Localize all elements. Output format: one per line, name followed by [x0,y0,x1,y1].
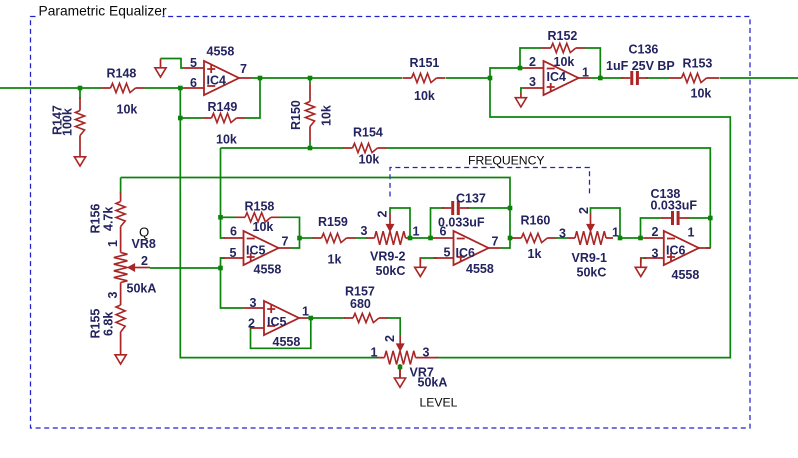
op-amp IC5 unit A [224,231,291,265]
svg-text:6: 6 [440,225,447,239]
wire IC6A pin5 to gnd [420,258,437,263]
wire C138 right [688,217,711,219]
wire R160 to VR9-1 [556,237,568,239]
svg-text:1k: 1k [328,253,342,267]
potentiometer VR7 50kA [377,336,438,378]
resistor R157 680 [344,313,388,322]
op-amp IC6 unit A [434,231,501,265]
wire pin5 jog [221,258,245,308]
wire R148 to IC4 pin6 [145,87,185,89]
svg-text:IC5: IC5 [246,244,266,258]
junction R151/feedback [488,76,493,81]
svg-text:7: 7 [492,235,499,249]
wire R150 bottom stub [309,142,311,148]
svg-text:5: 5 [444,246,451,260]
wire R154 row right [387,148,711,248]
ground at IC6A pin5 [415,258,426,277]
resistor R155 6.8k [116,283,125,346]
svg-text:3: 3 [559,227,566,241]
wire x220 vertical lower [221,257,226,259]
junction C138 right [708,216,713,221]
svg-text:2: 2 [652,225,659,239]
svg-text:5: 5 [190,56,197,70]
svg-text:7: 7 [282,235,289,249]
op-amp IC6 unit B [644,231,711,265]
svg-text:R156: R156 [89,204,103,234]
wire IC4 output row [251,77,402,79]
svg-text:10k: 10k [117,103,138,117]
wire VR9-2 wiper loop [390,208,410,238]
svg-text:FREQUENCY: FREQUENCY [468,154,545,168]
wiper arrow VR7 [396,344,404,352]
frequency gang dashed bracket [390,168,590,197]
svg-text:R152: R152 [548,29,578,43]
svg-text:50kC: 50kC [376,264,406,278]
junction C137 left [428,236,433,241]
wire R156 top stub [120,178,122,195]
svg-text:1k: 1k [528,247,542,261]
resistor R152 10k [542,43,585,52]
wire C137 right [467,207,510,209]
svg-text:1: 1 [371,346,378,360]
junction R150 top [308,76,313,81]
svg-text:10k: 10k [216,133,237,147]
wire R152 loop left [520,48,542,68]
potentiometer VR9-2 50kC [367,214,411,245]
svg-text:R155: R155 [89,309,103,339]
svg-text:10k: 10k [253,220,274,234]
ground below R155 [115,345,126,364]
svg-text:1: 1 [688,226,695,240]
svg-text:4.7k: 4.7k [102,207,116,231]
svg-text:10k: 10k [320,105,334,126]
ground at IC4B pin3 [515,93,526,108]
op-amp IC4 unit A [184,61,251,95]
svg-text:R160: R160 [521,214,551,228]
junction R158 left [218,215,223,220]
junction VR9-1 pin1 [618,236,623,241]
junction VR8 wiper [218,266,223,271]
svg-text:100k: 100k [61,108,75,136]
svg-text:2: 2 [577,207,591,214]
title Parametric Equalizer [37,4,167,19]
svg-text:2: 2 [529,55,536,69]
junction IC4A out [258,76,263,81]
svg-text:VR9-2: VR9-2 [370,250,405,264]
junction VR7 ground [398,365,403,370]
svg-text:R154: R154 [353,126,383,140]
wire IC5B out to R157 [308,317,345,319]
svg-text:1: 1 [106,240,120,247]
resistor R154 10k [344,143,387,152]
wire R157 to VR7 wiper [388,318,401,336]
svg-text:1: 1 [582,66,589,80]
wire R158 left stub [221,216,237,218]
capacitor C138 0.033uF [662,211,689,225]
ground at IC6B pin3 [635,258,646,277]
svg-text:3: 3 [250,296,257,310]
svg-text:4558: 4558 [254,263,282,277]
svg-text:6.8k: 6.8k [102,312,116,336]
wire x220 vertical upper [221,148,226,238]
resistor R148 10k [102,83,145,92]
svg-text:3: 3 [652,247,659,261]
wire IC4B out to C136 [591,77,624,79]
junction R159 node [297,236,302,241]
svg-text:4558: 4558 [207,45,235,59]
junction R148/rail [178,86,183,91]
junction IC5B out [309,316,314,321]
op-amp IC5 unit B [244,301,308,335]
svg-text:2: 2 [248,317,255,331]
wire R147 top stub [79,88,81,99]
wire R149 left [180,117,202,119]
resistor R150 10k [305,84,314,142]
capacitor C137 0.033uF [442,201,469,215]
wire VR9-2 pin1 to C137 node [410,237,434,239]
resistor R159 1k [313,233,356,242]
wire node rail x180 down [180,88,377,358]
potentiometer VR8 50kA [114,253,150,283]
svg-text:R150: R150 [289,100,303,130]
svg-text:4558: 4558 [672,268,700,282]
wire R152 loop right [585,48,601,78]
svg-text:IC4: IC4 [207,74,227,88]
svg-text:3: 3 [423,346,430,360]
junction VR9-2 pin1 [408,236,413,241]
wiper arrow VR9-2 [386,224,394,232]
wire IC6B out corner [706,247,710,249]
wire R150 top stub [309,78,311,84]
op-amp IC4 unit B [524,61,591,95]
svg-text:LEVEL: LEVEL [420,396,458,410]
svg-text:IC6: IC6 [666,244,686,258]
svg-text:6: 6 [230,225,237,239]
wire long mid rail [121,178,510,249]
svg-text:680: 680 [350,297,371,311]
junction R150 bottom [308,146,313,151]
junction C138 left [638,236,643,241]
wire C138 left drop [641,218,664,238]
svg-text:VR9-1: VR9-1 [572,251,607,265]
svg-text:5: 5 [230,246,237,260]
wire VR7 pin1 lead [377,357,378,359]
svg-text:3: 3 [361,224,368,238]
svg-text:1: 1 [302,305,309,319]
junction IC4B pin2 [518,66,523,71]
svg-text:10k: 10k [691,87,712,101]
svg-text:3: 3 [529,75,536,89]
svg-text:1uF 25V BP: 1uF 25V BP [606,59,675,73]
resistor R153 10k [669,73,719,82]
wire IC4A pin5 gnd jog [161,59,185,69]
wire R151 right to node [446,77,490,79]
svg-text:R159: R159 [318,215,348,229]
wire output rail [720,77,798,79]
wire C137 left drop [431,208,445,238]
capacitor C136 1uF [621,71,648,85]
svg-text:R151: R151 [410,56,440,70]
wire feedback down right [438,78,731,358]
svg-text:IC6: IC6 [456,246,476,260]
ground below VR7 [394,369,405,388]
svg-text:R153: R153 [683,57,713,71]
svg-text:4558: 4558 [273,335,301,349]
svg-text:C137: C137 [456,192,486,206]
svg-text:10k: 10k [414,89,435,103]
svg-text:2: 2 [141,254,148,268]
wire input rail [0,87,102,89]
wire VR9-1 pin1 to C138 node [620,237,644,239]
wire C136 to R153 [646,77,669,79]
wire IC4B pin3 gnd jog [521,88,524,93]
ground at IC4A pin5 [155,59,166,78]
junction IC4B out [598,76,603,81]
resistor R147 100k [75,97,84,147]
wire R154 row left [221,147,345,149]
wire IC6B pin3 to gnd [641,258,646,263]
resistor R160 1k [512,233,556,242]
svg-text:IC5: IC5 [267,315,287,329]
svg-text:VR8: VR8 [132,237,156,251]
resistor R158 10k [236,213,280,222]
svg-text:0.033uF: 0.033uF [651,199,698,213]
resistor R149 10k [203,113,246,122]
wire R149 loop to pin7 [246,78,261,118]
potentiometer VR9-1 50kC [568,214,614,245]
svg-text:IC4: IC4 [547,70,567,84]
svg-text:3: 3 [106,292,120,299]
svg-text:6: 6 [190,76,197,90]
junction input/R147 [78,86,83,91]
junction C137 right [508,206,513,211]
wiper arrow VR8 [127,264,135,272]
svg-text:10k: 10k [359,153,380,167]
junction R149/rail [178,116,183,121]
svg-text:Parametric Equalizer: Parametric Equalizer [39,4,167,19]
wire IC5B pin2 loop [251,318,311,348]
wire VR7 pin3 lead [436,357,438,359]
svg-text:2: 2 [383,335,397,342]
resistor R156 4.7k [116,193,125,253]
svg-text:50kA: 50kA [127,282,157,296]
junction R160 left [508,236,513,241]
svg-text:R148: R148 [107,67,137,81]
wire R159 left stub [300,237,314,239]
svg-text:R158: R158 [245,200,275,214]
wire VR9-1 wiper loop [591,208,621,238]
svg-text:50kC: 50kC [577,266,607,280]
wire R158 right loop [280,217,300,248]
wire R159 to VR9-2 [355,237,368,239]
svg-text:4558: 4558 [466,262,494,276]
wire R160 left stub [510,237,513,239]
svg-text:2: 2 [376,211,390,218]
ground below R147 [74,146,85,166]
wire VR8 wiper row [150,267,221,269]
svg-text:R149: R149 [208,100,238,114]
wire pin2 jog [490,68,524,78]
svg-text:7: 7 [240,62,247,76]
svg-text:C136: C136 [629,43,659,57]
resistor R151 10k [403,73,446,82]
svg-text:50kA: 50kA [418,376,448,390]
svg-text:1: 1 [413,225,420,239]
wiper arrow VR9-1 [587,224,595,232]
